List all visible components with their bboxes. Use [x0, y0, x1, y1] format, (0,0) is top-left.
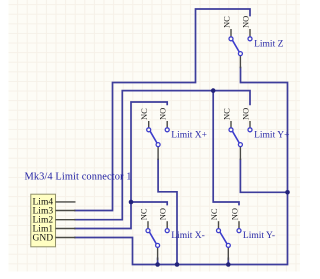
Limit Y- NC contact circle — [217, 229, 221, 233]
pin Lim4 — [56, 201, 76, 203]
pin Lim2 — [56, 219, 76, 221]
Limit X- common contact circle — [156, 243, 160, 247]
Limit X- NC contact circle — [146, 229, 150, 233]
svg-text:Limit Z: Limit Z — [254, 39, 283, 49]
switch Limit Z — [221, 16, 283, 68]
junction dot GND bus at Y- common — [226, 262, 231, 267]
wire GND stub Limit Y- common to bus — [227, 258, 229, 265]
Limit Z common contact circle — [238, 52, 242, 56]
Limit Z pin NC — [230, 29, 232, 37]
Limit Z lever — [232, 40, 239, 52]
svg-text:NO: NO — [158, 108, 168, 120]
wire net Lim3 to Limit Z NO (connector to top loop) — [75, 9, 250, 211]
switch Limit Y+ — [221, 108, 289, 160]
Limit X+ pin common — [157, 147, 159, 160]
Limit X- pin NC — [147, 221, 149, 228]
Limit Y- common contact circle — [226, 243, 230, 247]
Limit Y+ pin NC — [230, 121, 232, 128]
wire net GND: connector to bottom bus, right riser, to Limit Z common — [75, 68, 288, 265]
wire GND stub Limit X- common to bus — [157, 258, 159, 265]
Limit Y+ pin common — [239, 147, 241, 160]
svg-text:GND: GND — [33, 233, 54, 243]
connector body — [31, 194, 56, 247]
svg-text:NO: NO — [229, 208, 239, 220]
Limit Z NC contact circle — [229, 37, 233, 41]
svg-text:NO: NO — [158, 208, 168, 220]
svg-text:NC: NC — [221, 108, 231, 120]
Limit X+ pin NO — [166, 121, 168, 128]
wire branch Lim2 net to Limit Y- NO — [213, 91, 239, 205]
wire net Lim1 to Limit X+ NO — [75, 102, 167, 229]
svg-text:Limit X+: Limit X+ — [171, 130, 207, 140]
wire GND branch from Limit Y+ common to right riser — [240, 160, 287, 193]
svg-text:NO: NO — [240, 16, 250, 28]
Limit X- lever — [149, 232, 156, 244]
svg-text:NO: NO — [240, 108, 250, 120]
Limit Y- pin NC — [218, 221, 220, 228]
switch Limit X- — [138, 208, 205, 260]
Limit Y+ NC contact circle — [229, 128, 233, 132]
Limit Y- pin common — [227, 248, 229, 260]
svg-text:NC: NC — [138, 208, 148, 220]
switch Limit X+ — [139, 108, 207, 160]
pin GND — [56, 237, 76, 239]
Limit X- NO contact circle — [165, 229, 169, 233]
Limit X+ lever — [150, 131, 157, 143]
wire GND branch from Limit X+ common to bus — [158, 160, 177, 265]
Limit Z pin common — [239, 56, 241, 68]
Limit Z NO contact circle — [248, 37, 252, 41]
Limit X- pin common — [157, 248, 159, 260]
Limit Y+ pin NO — [249, 121, 251, 128]
junction dot GND bus at X- common — [155, 262, 160, 267]
junction dot Lim1 net at (131,202) — [129, 200, 134, 205]
wire branch Lim1 net to Limit X- NO — [131, 202, 167, 205]
Limit X- pin NO — [166, 221, 168, 228]
Limit Y- NO contact circle — [237, 229, 241, 233]
junction dot GND right riser at Y+ common — [285, 190, 290, 195]
svg-text:Limit X-: Limit X- — [171, 231, 205, 241]
svg-text:Mk3/4 Limit connector 1: Mk3/4 Limit connector 1 — [25, 172, 132, 183]
svg-text:Limit Y-: Limit Y- — [243, 231, 275, 241]
junction dot Lim2 net at (213,91) — [211, 88, 216, 93]
svg-text:NC: NC — [209, 208, 219, 220]
connector Mk3/4 Limit connector 1 — [25, 172, 132, 247]
junction dot GND bus at X+ common drop — [175, 262, 180, 267]
Limit X+ common contact circle — [156, 143, 160, 147]
svg-text:NC: NC — [139, 108, 149, 120]
pin Lim3 — [56, 210, 76, 212]
switch Limit Y- — [209, 208, 275, 260]
Limit X+ pin NC — [148, 121, 150, 128]
Limit X+ NC contact circle — [147, 128, 151, 132]
Limit X+ NO contact circle — [165, 128, 169, 132]
wire net Lim2 to Limit Y+ NO — [75, 91, 250, 220]
Limit Y+ lever — [232, 131, 239, 143]
Limit Y- pin NO — [238, 221, 240, 228]
Limit Z pin NO — [249, 29, 251, 37]
Limit Y+ NO contact circle — [248, 128, 252, 132]
pin Lim1 — [56, 228, 76, 230]
svg-text:NC: NC — [221, 16, 231, 28]
svg-text:Limit Y+: Limit Y+ — [254, 130, 289, 140]
Limit Y- lever — [220, 232, 227, 244]
Limit Y+ common contact circle — [238, 143, 242, 147]
